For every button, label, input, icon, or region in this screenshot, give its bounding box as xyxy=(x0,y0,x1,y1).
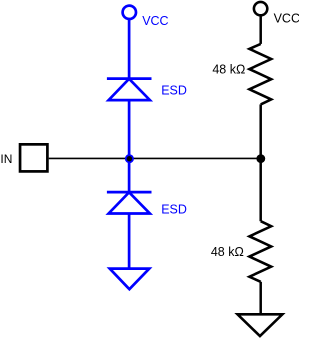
svg-text:VCC: VCC xyxy=(142,14,168,28)
wire D1 to node xyxy=(128,100,131,159)
node junction dot left (black core) xyxy=(127,156,132,161)
resistor R2 zigzag xyxy=(249,221,271,282)
svg-text:VCC: VCC xyxy=(274,11,299,25)
ground symbol black xyxy=(238,314,283,336)
node junction dot right xyxy=(256,154,265,163)
resistor R1 zigzag xyxy=(249,44,271,105)
wire D2 to ground (blue) xyxy=(128,214,131,269)
wire VCC to resistor R1 xyxy=(259,15,262,44)
svg-text:IN: IN xyxy=(0,152,12,166)
diode D1 cathode bar xyxy=(107,77,152,80)
wire R2 to ground (black) xyxy=(259,282,262,315)
VCC terminal circle left (blue) xyxy=(123,6,136,19)
wire R1 to node xyxy=(259,104,262,158)
diode D2 triangle xyxy=(109,192,150,213)
wire node to diode D2 xyxy=(128,159,131,192)
IN terminal box xyxy=(20,144,47,171)
svg-text:48 kΩ: 48 kΩ xyxy=(212,62,245,76)
VCC terminal circle right (black) xyxy=(254,2,267,15)
svg-text:ESD: ESD xyxy=(161,202,187,216)
diode D2 cathode bar xyxy=(107,191,152,194)
node junction dot left (blue ring) xyxy=(125,154,134,163)
ground symbol blue xyxy=(110,269,150,290)
diode D1 triangle xyxy=(109,79,150,100)
svg-text:ESD: ESD xyxy=(161,83,187,97)
wire VCC to ESD diode D1 xyxy=(128,19,131,79)
wire IN to node net xyxy=(49,157,261,159)
wire node to resistor R2 xyxy=(259,159,262,222)
svg-text:48 kΩ: 48 kΩ xyxy=(211,245,244,259)
